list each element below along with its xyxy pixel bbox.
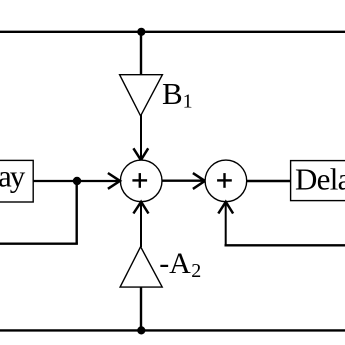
- op-amp B1 (gain triangle, pointing down): [120, 75, 163, 116]
- label B1: [162, 76, 193, 113]
- wire from -A2 amp up into summer U1 (arrow up): [133, 202, 148, 247]
- svg-text:-A: -A: [159, 247, 191, 280]
- wire from top bus down to B1 amp: [140, 32, 142, 76]
- svg-text:1: 1: [183, 91, 193, 113]
- svg-text:2: 2: [191, 260, 201, 282]
- op-amp -A2 (gain triangle, pointing up): [120, 247, 162, 287]
- wire from bottom bus up to -A2 amp: [140, 287, 142, 330]
- svg-text:Delay: Delay: [295, 161, 345, 196]
- wire from node down: [75, 181, 77, 244]
- node junction on bottom bus: [137, 326, 145, 334]
- summer U1 (adder circle): [120, 160, 162, 202]
- wire summer U1 to summer U2 (arrow right): [162, 173, 205, 189]
- node junction on top bus: [137, 28, 145, 36]
- wire bottom bus: [0, 329, 345, 331]
- wire summer U2 to delay box right: [247, 180, 291, 182]
- delay box left (cropped at left edge): [0, 159, 33, 202]
- wire from B1 to summer U1 (arrow down): [133, 115, 148, 161]
- node junction on delay-left output: [73, 177, 81, 185]
- wire delay-left output to summer U1 (arrow right): [33, 173, 120, 189]
- svg-text:ay: ay: [0, 159, 26, 194]
- svg-text:B: B: [162, 76, 183, 111]
- wire top bus: [0, 31, 345, 33]
- label -A2: [159, 247, 201, 282]
- summer U2 (adder circle): [205, 160, 247, 202]
- delay box right (cropped at right edge): [291, 161, 345, 201]
- wire feedback to left edge: [0, 242, 78, 244]
- wire feedback from right edge up into summer U2 (arrow up): [218, 202, 345, 246]
